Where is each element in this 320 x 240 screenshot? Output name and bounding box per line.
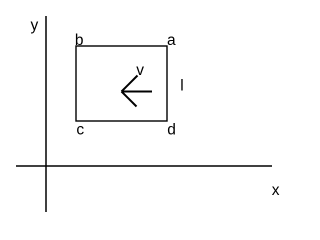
svg-text:a: a (167, 32, 176, 49)
svg-text:x: x (272, 182, 280, 199)
velocity arrow upper barb (122, 76, 138, 92)
svg-text:v: v (136, 62, 144, 79)
velocity arrow lower barb (122, 92, 137, 107)
svg-text:b: b (75, 32, 84, 49)
svg-text:l: l (180, 78, 183, 95)
y-axis (45, 16, 47, 212)
svg-text:c: c (76, 122, 84, 139)
x-axis (16, 165, 272, 167)
svg-text:y: y (31, 17, 39, 34)
loop rectangle abcd (76, 46, 167, 121)
svg-text:d: d (167, 122, 176, 139)
velocity arrow shaft (122, 91, 153, 93)
